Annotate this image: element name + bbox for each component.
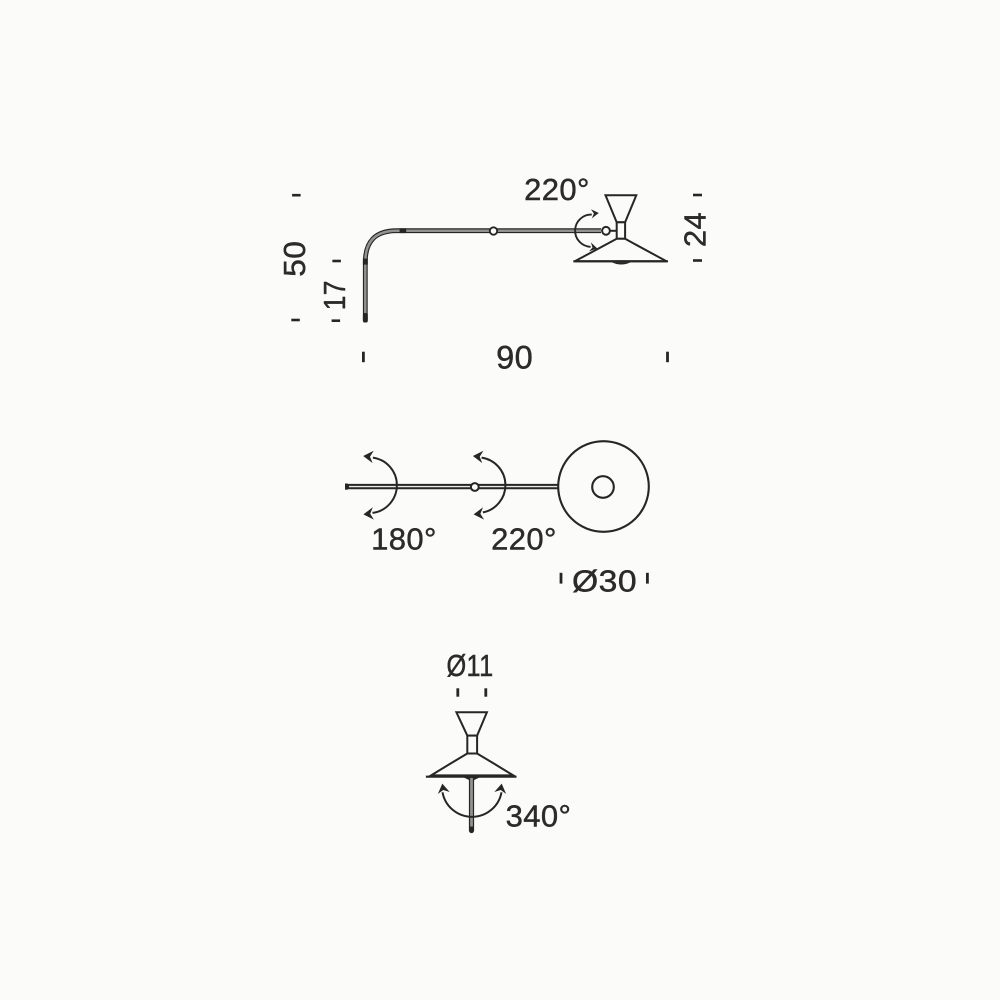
svg-text:220°: 220° — [524, 172, 590, 207]
svg-text:340°: 340° — [506, 798, 572, 833]
dim 50 tick top — [292, 194, 301, 197]
arm line (top view) — [346, 484, 559, 489]
neck (side) — [617, 222, 625, 239]
dim 17 tick top — [332, 260, 341, 263]
dim 17 tick bottom — [332, 319, 341, 322]
shade bottom rim line — [573, 260, 668, 262]
dim D30 tick left — [560, 573, 563, 584]
arc 220 arrowhead bottom — [474, 507, 485, 519]
dim D11 tick right — [484, 688, 487, 696]
svg-text:Ø30: Ø30 — [572, 563, 637, 598]
arc 340 arrowhead right — [494, 784, 506, 794]
arc 340 arrowhead left — [438, 784, 450, 794]
dim 90 tick right — [666, 352, 669, 363]
arc arrowhead top (side) — [591, 209, 599, 218]
dim 90 tick left — [362, 352, 365, 363]
rotation arc 180 (top view) — [373, 458, 397, 513]
dim 24 tick top — [693, 194, 702, 197]
arm joint circle (top view) — [471, 483, 479, 491]
dim 50 tick bottom — [291, 319, 300, 322]
arc arrowhead bottom (side) — [589, 242, 597, 251]
arc 180 arrowhead top — [363, 451, 374, 463]
svg-text:17: 17 — [317, 280, 352, 310]
svg-text:50: 50 — [277, 241, 312, 277]
diffuser bump (side) — [612, 262, 631, 264]
shade circle (top view) — [558, 441, 649, 532]
arm line end cap (top view) — [345, 484, 348, 490]
rotation arc 220 (side) — [575, 215, 592, 247]
tube wall tip (bottom) — [363, 313, 368, 323]
svg-text:220°: 220° — [491, 521, 557, 556]
svg-text:Ø11: Ø11 — [447, 648, 494, 683]
svg-text:180°: 180° — [371, 521, 437, 556]
upper cone (front) — [456, 712, 487, 735]
rotation arc 220 (top view) — [482, 458, 506, 513]
shade cone (side) — [575, 239, 667, 261]
arc 180 arrowhead bottom — [363, 507, 374, 519]
arm mid joint circle — [490, 227, 497, 234]
rotation arc 340 — [443, 792, 502, 817]
shade (front) — [431, 754, 513, 776]
wall arm tube (bent) — [365, 231, 601, 321]
socket bump (front) — [463, 777, 481, 781]
arc 220 arrowhead top — [473, 451, 484, 463]
shade bottom rim line (front) — [426, 776, 517, 778]
hub circle (top view) — [592, 476, 614, 498]
neck (front) — [467, 736, 477, 754]
svg-text:90: 90 — [496, 340, 533, 376]
tube joint mark (vertical) — [363, 259, 368, 265]
dim D30 tick right — [646, 573, 649, 584]
pivot link line — [610, 230, 617, 232]
tube joint mark (horizontal) — [400, 228, 407, 233]
upper cone (side) — [606, 195, 637, 222]
arm end pivot circle — [602, 227, 610, 235]
dim 24 tick bottom — [693, 259, 702, 262]
stem (front) — [469, 778, 474, 831]
dim D11 tick left — [456, 688, 459, 696]
svg-text:24: 24 — [678, 212, 713, 247]
